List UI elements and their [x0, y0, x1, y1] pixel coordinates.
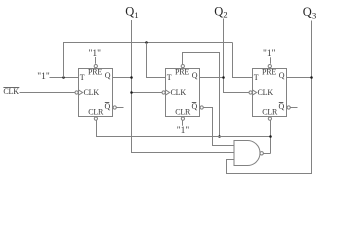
svg-text:"1": "1" — [177, 126, 190, 136]
svg-text:CLK: CLK — [3, 87, 19, 96]
wire Q1 to clock of U2 — [132, 92, 163, 94]
wire Q3 vertical and bottom return to NAND bottom input — [227, 21, 312, 174]
node junction top rail to T2 — [145, 41, 148, 44]
node Q1 at U1 Q — [130, 76, 133, 79]
gate NAND G1 — [234, 141, 263, 166]
flip-flop U3 (T flip-flop) — [249, 64, 298, 120]
wire Q output of U2 — [200, 77, 224, 79]
wire "1" to T of U1 — [50, 77, 79, 79]
wire Q output of U1 — [113, 77, 132, 79]
wire drop to T of U3 — [233, 43, 253, 78]
svg-text:"1": "1" — [37, 72, 50, 82]
wire clear net horizontal from U1 CLR — [97, 120, 271, 136]
label Q1 — [125, 5, 138, 20]
svg-text:Q: Q — [125, 5, 134, 19]
wire drop to T of U2 — [147, 43, 166, 78]
svg-text:2: 2 — [223, 9, 227, 19]
label Q2 — [214, 4, 227, 19]
wire NAND output — [263, 153, 270, 155]
wire "1" net riser and top rail — [64, 43, 233, 78]
node Q2 at U2 Q — [222, 76, 225, 79]
wire CLK to U1 clock — [20, 92, 76, 94]
wire "1" to PRE of U1 — [95, 57, 97, 64]
flip-flop U2 (T flip-flop) — [162, 64, 211, 120]
svg-text:3: 3 — [312, 10, 316, 20]
wire Q output of U3 — [287, 77, 312, 79]
node junction on "1" net — [62, 76, 65, 79]
node PRE2 tap on clear net — [218, 135, 221, 138]
wire CLR of U2 to "1" — [182, 120, 184, 126]
node Q1 clock branch — [130, 91, 133, 94]
svg-text:1: 1 — [134, 10, 138, 20]
node Q3 at U3 Q — [310, 76, 313, 79]
wire "1" to PRE of U3 — [270, 57, 272, 64]
wire Q2 vertical to clock of U3 — [224, 19, 250, 93]
label Q3 — [303, 5, 316, 20]
svg-text:"1": "1" — [263, 49, 276, 59]
svg-text:Q: Q — [214, 4, 223, 18]
flip-flop U1 (T flip-flop) — [75, 64, 124, 120]
node clear net junction — [269, 135, 272, 138]
label CLK input — [3, 87, 19, 96]
wire clear net riser to U3 CLR — [270, 120, 272, 153]
wire Qbar of U2 to NAND top input — [211, 108, 235, 146]
svg-text:"1": "1" — [89, 49, 102, 59]
svg-text:Q: Q — [303, 5, 312, 19]
wire PRE of U2 to clear net — [183, 53, 220, 137]
wire Q1 vertical down to NAND middle input — [132, 20, 235, 153]
